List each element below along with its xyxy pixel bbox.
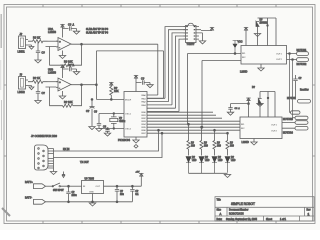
svg-text:TCM??: TCM?? (187, 43, 196, 46)
svg-text:RestStw: RestStw (300, 89, 309, 92)
svg-text:GND: GND (89, 192, 94, 194)
feedback resistor R2 10K (46, 43, 112, 66)
svg-text:330: 330 (217, 146, 222, 148)
cap C13 on driver2 vcc (228, 103, 249, 113)
svg-text:RA3: RA3 (142, 104, 147, 107)
svg-text:R? 1K: R? 1K (33, 36, 40, 40)
svg-text:C?: C? (135, 191, 139, 193)
svg-text:IN2: IN2 (242, 57, 246, 59)
wire opamp1 output to right bus (112, 44, 158, 95)
cap C10 after switch (66, 186, 70, 202)
svg-text:Date:: Date: (217, 218, 223, 221)
svg-text:330: 330 (191, 146, 196, 148)
vcc bar above U4 (244, 28, 248, 46)
svg-text:1: 1 (308, 213, 310, 217)
svg-text:Title: Title (217, 199, 222, 202)
svg-text:SW SPST: SW SPST (53, 189, 64, 192)
border zone ticks left (4, 85, 7, 156)
border zone ticks right (313, 85, 316, 156)
vcc bar above U5 (246, 98, 250, 117)
svg-text:LINE1: LINE1 (18, 50, 26, 54)
connector BATT- (34, 199, 46, 204)
svg-text:IN2: IN2 (241, 128, 245, 130)
svg-text:+: + (59, 40, 61, 44)
svg-text:J?: J? (20, 32, 23, 36)
svg-text:-: - (59, 86, 60, 90)
shunt capacitor C3 (36, 82, 40, 101)
svg-text:330: 330 (230, 146, 235, 148)
ground right of C2 (73, 29, 79, 35)
svg-text:BATT+: BATT+ (25, 181, 33, 184)
svg-text:R?: R? (217, 143, 221, 145)
wire input2 to opamp (48, 81, 59, 83)
shunt capacitor C1 (36, 41, 40, 60)
junction dots LED taps (188, 123, 190, 125)
svg-text:D?: D? (205, 157, 209, 159)
serial wires to DB9 (54, 130, 159, 151)
svg-text:Rev: Rev (307, 209, 312, 211)
svg-text:C?: C? (299, 78, 303, 80)
svg-text:LED: LED (192, 160, 197, 162)
svg-text:D?: D? (260, 20, 264, 22)
svg-text:RB0: RB0 (142, 112, 147, 114)
PIC ground (133, 137, 139, 143)
svg-text:D?: D? (231, 157, 235, 159)
wire bundle verticals (147, 27, 186, 112)
svg-text:1N4001: 1N4001 (260, 23, 269, 25)
resistor R3 1K (28, 80, 48, 83)
ground right of C4 (73, 69, 79, 75)
svg-text:SLAB ADJ TP R7 P6: SLAB ADJ TP R7 P6 (86, 32, 109, 35)
svg-text:R? 10K: R? 10K (64, 100, 73, 104)
svg-text:0.1: 0.1 (135, 194, 139, 196)
resistor R1 1K (28, 40, 48, 43)
ground below DB9 (50, 168, 56, 175)
title block (215, 197, 314, 221)
ground right of C6 (147, 83, 153, 88)
svg-text:TX OUT: TX OUT (80, 161, 89, 164)
regulator gnd pin (92, 194, 94, 202)
PIC pin labels right (125, 94, 147, 135)
ground below U5 (251, 139, 257, 146)
electrolytic cap C5 on MCLR net (89, 99, 94, 127)
connector P2 (291, 111, 301, 114)
svg-text:C? .1: C? .1 (235, 108, 241, 110)
svg-text:10K: 10K (114, 89, 119, 93)
svg-text:OSC1: OSC1 (125, 114, 132, 116)
svg-text:RA1: RA1 (142, 97, 147, 100)
connector MOTOR2 (297, 58, 309, 62)
connector J1 (line input 1) (19, 36, 29, 49)
power arrow above switch (62, 172, 65, 178)
svg-text:R? 1K: R? 1K (33, 76, 40, 80)
svg-text:LED: LED (231, 160, 236, 162)
svg-text:LINE2: LINE2 (18, 90, 26, 94)
svg-text:RB2: RB2 (142, 118, 147, 120)
LED D3 (212, 157, 219, 174)
motor driver U4 box (241, 46, 287, 65)
crystal X1 4MHz (99, 113, 124, 130)
regulator output wire (104, 185, 142, 187)
vcc arrow MCLR pullup (109, 83, 113, 86)
svg-text:MOTOR: MOTOR (287, 98, 296, 100)
svg-text:R?: R? (230, 143, 234, 145)
svg-text:OUT2: OUT2 (276, 59, 283, 61)
DB9 connector J3 (35, 145, 49, 170)
svg-text:ROBOT.SCH: ROBOT.SCH (229, 213, 244, 216)
svg-text:IN1: IN1 (241, 124, 245, 126)
ground at J2 pin2 (28, 86, 34, 90)
cap C8 on OSC2 (104, 128, 110, 136)
svg-text:J? CONNECTOR DB9: J? CONNECTOR DB9 (31, 134, 57, 138)
ground below rail at regulator (89, 202, 95, 206)
svg-text:L293D: L293D (242, 141, 250, 144)
svg-text:VCC: VCC (238, 42, 243, 44)
svg-text:R?: R? (191, 143, 195, 145)
ground below C5 (89, 127, 95, 130)
wire RB7 with LED tap (147, 132, 228, 134)
svg-text:C?: C? (103, 126, 107, 129)
PIC decoupling cap C6 (136, 80, 150, 84)
svg-text:LM358: LM358 (48, 71, 56, 75)
svg-text:L293D: L293D (240, 71, 248, 74)
ground below U1B (59, 91, 65, 99)
connector J2 (line input 2) (19, 77, 29, 90)
LED D4 (225, 157, 232, 173)
svg-text:C? .1: C? .1 (68, 23, 75, 27)
connector MOTOR4 (295, 126, 308, 130)
svg-text:330: 330 (204, 146, 209, 148)
ground right of U3 (199, 33, 205, 44)
U4 output wires (287, 54, 297, 60)
svg-text:MOTOR4: MOTOR4 (283, 133, 294, 135)
wire RB5 with LED tap (147, 126, 240, 128)
svg-text:IN1: IN1 (242, 53, 246, 55)
svg-text:Sheet: Sheet (266, 218, 272, 221)
svg-text:MOTOR2: MOTOR2 (297, 64, 308, 66)
resistor R5 10K vertical (110, 86, 113, 99)
vcc arrow on driver1 IN1 net (233, 41, 238, 54)
svg-text:C?: C? (42, 51, 46, 55)
vcc bar right of U3 (201, 28, 214, 31)
svg-text:D?: D? (218, 157, 222, 159)
wire RB4 riser to driver1 IN1 (188, 54, 242, 125)
connector P1 (298, 99, 311, 103)
svg-text:D?: D? (192, 157, 196, 159)
PIC right top pins to bundle (147, 98, 172, 105)
junction after switch (68, 185, 70, 187)
scan smudge left edge (0, 14, 2, 48)
connector MOTOR1 (297, 52, 309, 56)
svg-text:1 of 1: 1 of 1 (280, 218, 287, 221)
cap C9 right column (293, 75, 297, 100)
svg-text:LED: LED (218, 160, 223, 162)
U6 pin labels (83, 186, 101, 193)
switch SW1 (52, 183, 68, 187)
wire batt+ to switch (46, 185, 53, 187)
ground below C7 (96, 129, 102, 132)
wire opamp2 output down to PIC (96, 85, 124, 100)
svg-text:LM358: LM358 (48, 30, 56, 34)
cap C12 .1 (130, 185, 134, 202)
svg-text:OUT1: OUT1 (276, 54, 283, 56)
svg-text:R? 10K: R? 10K (64, 60, 73, 64)
svg-text:MOTOR3: MOTOR3 (283, 119, 294, 121)
PIC vcc arrow (134, 76, 138, 92)
ground mid U5 top (257, 104, 263, 107)
ground below U1A (59, 51, 65, 59)
svg-text:LED: LED (205, 160, 210, 162)
wire RB4 with LED tap (147, 123, 240, 125)
wire RB2 (147, 117, 222, 119)
svg-text:C?: C? (141, 77, 145, 81)
connector BATT+ (34, 184, 46, 189)
svg-text:RB5: RB5 (142, 127, 147, 129)
svg-text:Sunday, September 12, 1995: Sunday, September 12, 1995 (226, 218, 258, 221)
svg-text:OSC2: OSC2 (125, 129, 132, 131)
border zone ticks bottom (43, 221, 276, 224)
op-amp U1B (56, 78, 71, 91)
wire RB1 (147, 114, 216, 116)
svg-text:MCLR: MCLR (125, 100, 132, 102)
wire opamp2 output up to PIC RA1 (96, 51, 163, 98)
svg-text:OUT: OUT (96, 186, 101, 188)
ground below C13 (227, 112, 233, 115)
svg-text:J?: J? (20, 73, 23, 77)
svg-text:D?: D? (252, 87, 256, 89)
wire RB6 with LED tap (147, 129, 240, 131)
op-amp U1A (56, 38, 71, 51)
ground below C1 (35, 60, 41, 63)
motor driver U5 box (240, 117, 282, 139)
svg-text:RB4: RB4 (142, 124, 147, 126)
LED branch 1: resistor R6 (187, 124, 190, 155)
svg-text:RB3: RB3 (142, 121, 147, 123)
svg-text:SIMPLE ROBOT: SIMPLE ROBOT (231, 202, 255, 206)
svg-text:C?: C? (72, 192, 76, 194)
svg-text:10u: 10u (120, 194, 125, 196)
ground below C3 (35, 101, 41, 104)
U5 output wires (282, 123, 295, 129)
svg-text:C?: C? (94, 111, 98, 114)
border zone ticks top (43, 5, 276, 8)
connector MOTOR3 (295, 121, 308, 125)
svg-text:4MHz: 4MHz (119, 120, 126, 123)
svg-text:RB7: RB7 (142, 133, 147, 135)
svg-text:IN: IN (83, 186, 86, 188)
LED D2 (199, 157, 206, 174)
vcc arrow above U1B (60, 65, 64, 78)
svg-text:-: - (59, 45, 60, 49)
svg-text:PIC16C84: PIC16C84 (118, 138, 131, 142)
svg-text:100u: 100u (72, 195, 78, 197)
decoupling cap C2 at U1A (63, 26, 77, 30)
U4 pin labels (242, 53, 283, 61)
svg-text:A: A (220, 212, 222, 216)
+5V arrow (139, 174, 143, 187)
U5 pin labels (241, 124, 278, 132)
svg-text:+: + (59, 80, 61, 84)
svg-text:+5V: +5V (136, 172, 140, 174)
flyback diode D5 (256, 18, 276, 46)
ground below U4 (258, 64, 264, 71)
ground mid U4 top (254, 34, 260, 37)
LED branch 4: resistor R9 (226, 133, 229, 155)
no-connect diamond marker (134, 145, 138, 149)
flyback diode D6 (258, 92, 275, 118)
junction MCLR (110, 99, 112, 101)
svg-text:RB1: RB1 (142, 115, 147, 117)
ground at J1 pin2 (28, 45, 34, 49)
svg-text:OUT2: OUT2 (271, 130, 278, 132)
svg-text:R?: R? (204, 143, 208, 145)
svg-text:OUT1: OUT1 (271, 124, 278, 126)
svg-text:U? 7805: U? 7805 (85, 178, 95, 181)
bottom rail (46, 201, 133, 203)
right side vertical wire 2 (293, 60, 296, 118)
svg-text:C? .1: C? .1 (68, 63, 75, 67)
LED D1 (186, 157, 193, 174)
regulator 7805 U6 (82, 181, 104, 194)
svg-text:BATT-: BATT- (25, 197, 32, 200)
DB9 pin stubs (48, 149, 54, 169)
feedback resistor R4 10K (46, 84, 97, 108)
connector P3 (295, 116, 308, 119)
svg-text:MOTOR1: MOTOR1 (297, 50, 308, 52)
cap C11 10u (115, 185, 119, 202)
wire RB3 (147, 120, 240, 122)
wire RB0 (147, 111, 213, 113)
decoupling cap C4 at U1B (63, 67, 77, 71)
wire input1 to opamp (48, 40, 59, 42)
LED common rail (189, 172, 228, 174)
svg-text:C?: C? (42, 91, 46, 95)
right side vertical wires (290, 54, 291, 113)
svg-text:Size: Size (217, 209, 222, 211)
svg-text:C?: C? (120, 191, 124, 193)
wire to regulator (69, 185, 82, 187)
LED branch 2: resistor R7 (200, 127, 203, 155)
svg-text:RB6: RB6 (142, 130, 147, 132)
MAX232-style DIP U3 (184, 23, 203, 42)
ground at LED rail (224, 175, 230, 178)
svg-text:RA2: RA2 (142, 101, 147, 104)
svg-text:Document Number: Document Number (229, 209, 249, 212)
vcc arrow above U1A (60, 25, 64, 38)
cap C7 on OSC1 (97, 114, 101, 129)
svg-text:C?: C? (86, 109, 90, 113)
PIC16C84 IC U2 (124, 92, 147, 138)
svg-text:RX IN: RX IN (63, 148, 70, 151)
wire RB5 riser to driver1 IN2 (202, 61, 241, 128)
svg-text:RA0: RA0 (142, 94, 147, 97)
LED branch 3: resistor R8 (213, 130, 216, 155)
